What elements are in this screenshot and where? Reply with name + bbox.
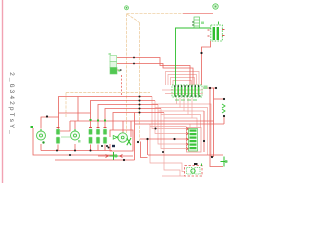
svg-text:2_G342pTsY_: 2_G342pTsY_ [8,72,15,136]
